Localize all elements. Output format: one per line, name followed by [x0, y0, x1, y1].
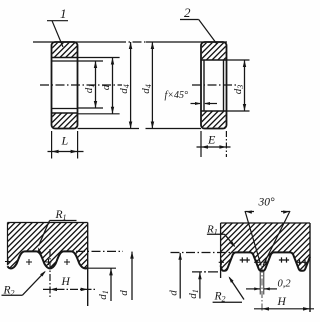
svg-text:f×45°: f×45°: [165, 90, 189, 101]
svg-text:d: d: [100, 84, 112, 90]
svg-text:2: 2: [184, 5, 191, 20]
svg-text:d: d: [167, 290, 179, 296]
svg-text:d: d: [118, 290, 130, 296]
svg-text:E: E: [207, 133, 216, 147]
svg-text:H: H: [277, 296, 287, 308]
svg-text:H: H: [61, 276, 71, 288]
svg-text:0,2: 0,2: [278, 279, 292, 290]
svg-text:L: L: [61, 134, 69, 148]
svg-text:1: 1: [60, 6, 67, 21]
svg-text:30°: 30°: [258, 197, 276, 209]
